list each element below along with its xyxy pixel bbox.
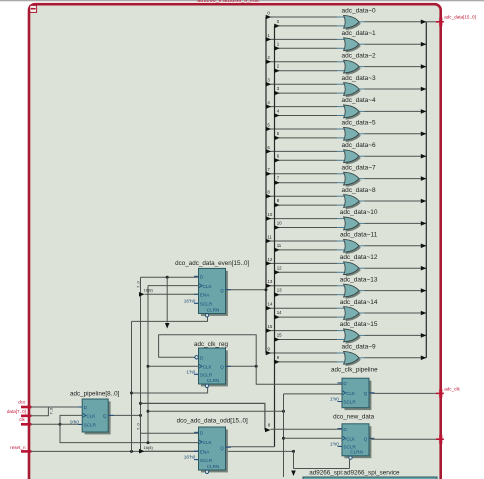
svg-text:adc_pipeline[8..0]: adc_pipeline[8..0] bbox=[70, 390, 120, 397]
svg-text:1'h0: 1'h0 bbox=[330, 397, 339, 403]
svg-text:16'h0: 16'h0 bbox=[184, 298, 196, 304]
svg-text:14: 14 bbox=[277, 310, 282, 315]
svg-text:CLK: CLK bbox=[346, 437, 356, 442]
svg-text:CLRN: CLRN bbox=[207, 378, 220, 383]
svg-text:7..0: 7..0 bbox=[135, 423, 140, 430]
svg-text:10: 10 bbox=[267, 212, 272, 217]
svg-text:dco: dco bbox=[18, 400, 26, 405]
svg-text:adc_data~14: adc_data~14 bbox=[340, 299, 378, 306]
svg-text:CLK: CLK bbox=[203, 365, 213, 370]
svg-text:adc_data~10: adc_data~10 bbox=[340, 209, 378, 216]
svg-text:ad9266_if:ad9266_if_inst: ad9266_if:ad9266_if_inst bbox=[197, 0, 259, 4]
svg-text:data[7..0]: data[7..0] bbox=[7, 409, 26, 414]
svg-text:adc_clk: adc_clk bbox=[444, 386, 460, 391]
svg-text:adc_data[15..0]: adc_data[15..0] bbox=[444, 15, 476, 20]
svg-text:adc_data~12: adc_data~12 bbox=[340, 254, 378, 261]
svg-text:adc_data~13: adc_data~13 bbox=[340, 276, 378, 283]
svg-text:7..0: 7..0 bbox=[49, 407, 54, 414]
svg-text:CLRN: CLRN bbox=[207, 464, 220, 469]
svg-text:adc_data~6: adc_data~6 bbox=[342, 142, 377, 149]
svg-text:Q: Q bbox=[220, 288, 224, 293]
svg-text:CLK: CLK bbox=[203, 440, 213, 445]
svg-text:9'h0: 9'h0 bbox=[70, 419, 79, 425]
svg-text:adc_data~9: adc_data~9 bbox=[342, 344, 377, 351]
svg-text:14: 14 bbox=[267, 302, 272, 307]
svg-text:adc_data~3: adc_data~3 bbox=[342, 75, 377, 82]
svg-text:Q: Q bbox=[364, 391, 368, 396]
svg-text:ENA: ENA bbox=[200, 293, 210, 298]
svg-text:1'h0: 1'h0 bbox=[186, 369, 195, 375]
svg-text:16(8): 16(8) bbox=[144, 287, 154, 292]
svg-text:16(8): 16(8) bbox=[144, 445, 154, 450]
svg-text:adc_data~8: adc_data~8 bbox=[342, 187, 377, 194]
svg-text:SCLR: SCLR bbox=[200, 302, 213, 307]
svg-text:adc_data~2: adc_data~2 bbox=[342, 52, 377, 59]
svg-text:16'h0: 16'h0 bbox=[184, 455, 196, 461]
svg-text:15: 15 bbox=[277, 333, 282, 338]
svg-text:ad9266_spi:ad9266_spi_service: ad9266_spi:ad9266_spi_service bbox=[309, 470, 400, 477]
svg-text:dco_adc_data_even[15..0]: dco_adc_data_even[15..0] bbox=[175, 260, 249, 267]
svg-text:10: 10 bbox=[277, 221, 282, 226]
svg-text:CLK: CLK bbox=[346, 391, 356, 396]
svg-text:SCLR: SCLR bbox=[200, 373, 213, 378]
svg-text:SCLR: SCLR bbox=[84, 423, 97, 428]
svg-text:SCLR: SCLR bbox=[343, 400, 356, 405]
svg-text:11: 11 bbox=[277, 243, 282, 248]
svg-text:adc_data~1: adc_data~1 bbox=[342, 30, 377, 37]
svg-text:Q: Q bbox=[364, 437, 368, 442]
svg-text:12: 12 bbox=[277, 265, 282, 270]
svg-text:CLRN: CLRN bbox=[350, 450, 363, 455]
svg-text:adc_data~15: adc_data~15 bbox=[340, 321, 378, 328]
svg-text:Q: Q bbox=[220, 365, 224, 370]
svg-text:clk: clk bbox=[19, 417, 25, 422]
svg-text:adc_data~0: adc_data~0 bbox=[342, 8, 377, 15]
svg-text:adc_data~4: adc_data~4 bbox=[342, 97, 377, 104]
svg-text:13: 13 bbox=[267, 279, 272, 284]
svg-text:CLRN: CLRN bbox=[207, 307, 220, 312]
svg-text:7..0: 7..0 bbox=[135, 281, 140, 288]
svg-text:adc_data~11: adc_data~11 bbox=[340, 232, 378, 239]
svg-text:CLK: CLK bbox=[203, 284, 213, 289]
svg-text:reset_n: reset_n bbox=[10, 445, 26, 450]
svg-text:11: 11 bbox=[267, 234, 272, 239]
svg-text:12: 12 bbox=[267, 257, 272, 262]
svg-text:dco_new_data: dco_new_data bbox=[333, 413, 374, 420]
svg-text:1'h0: 1'h0 bbox=[330, 441, 339, 447]
svg-text:adc_data~5: adc_data~5 bbox=[342, 120, 377, 127]
svg-text:adc_clk_reg: adc_clk_reg bbox=[194, 341, 228, 348]
svg-text:adc_clk_pipeline: adc_clk_pipeline bbox=[331, 367, 378, 374]
svg-text:13: 13 bbox=[277, 288, 282, 293]
svg-text:15: 15 bbox=[267, 324, 272, 329]
svg-text:dco_adc_data_odd[15..0]: dco_adc_data_odd[15..0] bbox=[177, 418, 248, 425]
svg-text:Q: Q bbox=[103, 414, 107, 419]
svg-text:CLK: CLK bbox=[86, 414, 96, 419]
svg-text:ENA: ENA bbox=[200, 449, 210, 454]
svg-text:Q: Q bbox=[220, 445, 224, 450]
svg-text:adc_data~7: adc_data~7 bbox=[342, 164, 377, 171]
svg-text:SCLR: SCLR bbox=[200, 458, 213, 463]
